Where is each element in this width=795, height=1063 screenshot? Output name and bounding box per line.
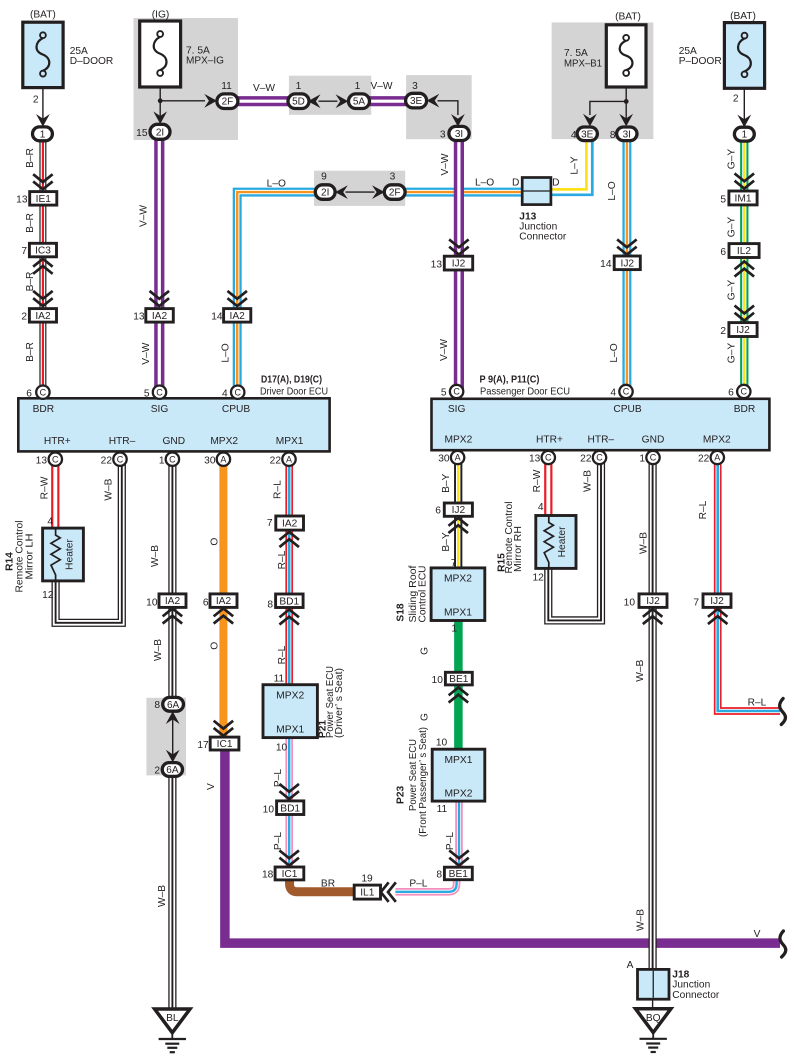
- svg-text:8: 8: [436, 870, 442, 881]
- svg-text:B–R: B–R: [25, 342, 36, 362]
- chevron arrow above IJ2 pin14: [618, 240, 635, 254]
- svg-text:13: 13: [133, 312, 145, 323]
- svg-text:12: 12: [532, 572, 544, 583]
- svg-text:22: 22: [698, 454, 710, 465]
- svg-text:1: 1: [296, 81, 302, 92]
- svg-text:BQ: BQ: [646, 1013, 661, 1024]
- svg-text:Heater: Heater: [557, 526, 568, 557]
- svg-text:5D: 5D: [292, 97, 305, 108]
- connector box IA2 pin 14: [224, 309, 251, 323]
- svg-text:5: 5: [144, 388, 150, 399]
- svg-text:C: C: [169, 454, 176, 464]
- connector oval 2F pin 3: [384, 185, 405, 200]
- svg-text:6A: 6A: [167, 700, 180, 711]
- wire W-B heater LH loop to HTR-: [56, 459, 122, 623]
- svg-text:MPX1: MPX1: [444, 608, 472, 619]
- ECU P21 power seat box: [263, 685, 317, 738]
- svg-text:G–Y: G–Y: [726, 217, 737, 238]
- svg-text:V–W: V–W: [440, 153, 451, 175]
- chevron arrow above IC1 pin17: [215, 722, 232, 736]
- arrow into connector 2I pin 15: [153, 111, 167, 124]
- chevron arrow below IA2 pin10: [164, 609, 181, 623]
- svg-text:4: 4: [222, 388, 228, 399]
- chevron arrow below IJ2 pin10: [644, 609, 661, 623]
- wire B-R D-DOOR column: [39, 140, 46, 392]
- arrow into connector 3I pin 8: [619, 114, 633, 127]
- svg-text:2I: 2I: [156, 127, 164, 138]
- svg-text:14: 14: [211, 312, 223, 323]
- svg-text:1: 1: [639, 454, 645, 465]
- connector box IJ2 pin 7: [703, 594, 731, 608]
- svg-text:C: C: [40, 387, 47, 397]
- svg-text:D–DOOR: D–DOOR: [70, 56, 114, 67]
- svg-text:7: 7: [693, 598, 699, 609]
- svg-text:V: V: [754, 929, 761, 940]
- svg-text:C: C: [117, 454, 124, 464]
- wire L-O 2F to J13: [405, 188, 523, 197]
- svg-text:BDR: BDR: [734, 404, 756, 415]
- svg-text:6A: 6A: [166, 765, 179, 776]
- connector oval 3E pin 3: [406, 93, 427, 108]
- svg-text:L–O: L–O: [221, 343, 232, 362]
- svg-text:R–L: R–L: [698, 500, 709, 519]
- connector box BE1 pin 8: [444, 867, 472, 880]
- svg-text:MPX1: MPX1: [276, 436, 304, 447]
- svg-text:IJ2: IJ2: [452, 505, 466, 516]
- connector oval 6A pin 8: [163, 697, 184, 711]
- svg-text:13: 13: [16, 194, 28, 205]
- svg-text:IJ2: IJ2: [710, 596, 724, 607]
- svg-text:P–L: P–L: [409, 878, 427, 889]
- junction connector J13 box: [522, 178, 551, 205]
- wire W-B GND driver upper: [168, 459, 176, 704]
- svg-text:P23: P23: [396, 786, 407, 804]
- connector oval 3I pin 3: [449, 126, 469, 140]
- svg-text:B–Y: B–Y: [441, 473, 452, 492]
- connector oval 5D: [288, 94, 309, 109]
- svg-text:IC3: IC3: [35, 246, 51, 257]
- connector box IL1 pin 19: [354, 885, 380, 899]
- svg-text:IJ2: IJ2: [646, 596, 660, 607]
- svg-text:3: 3: [440, 129, 446, 140]
- svg-text:G: G: [420, 647, 431, 655]
- svg-text:MPX1: MPX1: [444, 755, 472, 766]
- wire V-W 5A to 3E: [370, 96, 407, 106]
- shaded region connector pair 5D-5A: [289, 76, 371, 115]
- chevron arrow below BE1 pin10: [450, 688, 467, 702]
- svg-text:10: 10: [432, 675, 444, 686]
- ECU P23 power seat box: [432, 749, 485, 801]
- fuse 25A P-DOOR: [724, 23, 764, 89]
- svg-text:G–Y: G–Y: [726, 343, 737, 364]
- svg-text:MPX2: MPX2: [210, 436, 238, 447]
- svg-text:BE1: BE1: [449, 869, 469, 880]
- wire R-L MPX1 driver to P21: [285, 459, 293, 685]
- svg-text:L–O: L–O: [607, 181, 618, 200]
- chevron arrow above IA2 pin14: [229, 292, 246, 306]
- wire L-O CPUB passenger: [622, 140, 631, 392]
- svg-text:6: 6: [435, 505, 441, 516]
- svg-text:10: 10: [146, 598, 158, 609]
- svg-text:C: C: [453, 387, 460, 397]
- svg-text:W–B: W–B: [636, 909, 647, 931]
- svg-text:(Driver’ s Seat): (Driver’ s Seat): [334, 668, 345, 738]
- wire W-B heater RH loop to HTR-: [548, 458, 601, 621]
- chevron arrow above IA2 pin13: [151, 292, 168, 306]
- chevron arrow above IM1: [736, 174, 753, 188]
- wire V multiplex bus: [225, 750, 780, 944]
- svg-text:IA2: IA2: [216, 596, 232, 607]
- wire BR IC1 to IL1: [290, 880, 355, 892]
- wire R-W HTR+ driver to heater: [51, 459, 59, 528]
- svg-text:A: A: [220, 454, 226, 464]
- wire V-W SIG driver: [154, 140, 164, 393]
- svg-text:IC1: IC1: [282, 869, 298, 880]
- connector box IE1: [30, 192, 57, 206]
- svg-text:P–L: P–L: [273, 832, 284, 850]
- svg-text:3: 3: [390, 171, 396, 182]
- svg-text:B–Y: B–Y: [441, 532, 452, 551]
- svg-text:(BAT): (BAT): [615, 12, 641, 23]
- svg-text:8: 8: [154, 700, 160, 711]
- wire P-L IL1 to BE1: [395, 880, 456, 892]
- svg-text:W–B: W–B: [157, 885, 168, 907]
- connector box IM1: [729, 191, 757, 205]
- connector box IA2 LH: [29, 309, 56, 323]
- svg-text:4: 4: [47, 517, 53, 528]
- svg-text:V–W: V–W: [139, 205, 150, 227]
- svg-text:14: 14: [600, 259, 612, 270]
- svg-text:Control ECU: Control ECU: [418, 566, 429, 623]
- svg-text:GND: GND: [162, 436, 185, 447]
- pin 4 CPUB passenger: [619, 385, 632, 398]
- svg-text:C: C: [623, 387, 630, 397]
- svg-text:D: D: [512, 178, 519, 189]
- connector box IJ2 pin 13: [444, 256, 472, 270]
- svg-text:C: C: [596, 453, 603, 463]
- pin 30 MPX2 passenger: [451, 451, 464, 464]
- svg-text:P–L: P–L: [445, 832, 456, 850]
- svg-text:SIG: SIG: [448, 404, 466, 415]
- svg-text:V–W: V–W: [370, 81, 392, 92]
- svg-text:(BAT): (BAT): [730, 11, 756, 22]
- svg-text:7: 7: [267, 518, 273, 529]
- svg-text:IA2: IA2: [230, 311, 246, 322]
- wire V-W SIG passenger: [454, 140, 464, 392]
- svg-text:R–L: R–L: [273, 480, 284, 499]
- pin 22 HTR- driver: [113, 453, 126, 466]
- svg-text:MPX2: MPX2: [276, 691, 304, 702]
- svg-text:1: 1: [40, 129, 46, 140]
- svg-text:(BAT): (BAT): [30, 9, 56, 20]
- junction node under fuse MPX-IG: [158, 98, 163, 103]
- pin 5 SIG passenger: [450, 385, 463, 398]
- chevron arrow below BD1 pin8: [281, 610, 298, 624]
- connector box IJ2 pin 2: [729, 323, 757, 337]
- svg-text:MPX–B1: MPX–B1: [564, 59, 602, 70]
- svg-text:R–W: R–W: [532, 469, 543, 492]
- svg-text:(Front Passenger’ s Seat): (Front Passenger’ s Seat): [418, 727, 429, 837]
- connector oval 2F pin 11: [217, 94, 238, 109]
- svg-text:11: 11: [274, 674, 285, 685]
- fuse 25A D-DOOR: [23, 22, 63, 87]
- connector box IJ2 pin 6: [444, 503, 472, 516]
- pin 22 HTR- passenger: [593, 451, 606, 464]
- svg-text:10: 10: [624, 598, 636, 609]
- svg-text:13: 13: [431, 260, 443, 271]
- svg-text:2: 2: [733, 94, 739, 105]
- svg-text:BE1: BE1: [449, 674, 469, 685]
- connector oval 1 LH: [33, 127, 53, 141]
- arrow into connector 5D: [308, 94, 321, 108]
- svg-text:1: 1: [355, 81, 361, 92]
- svg-text:6: 6: [720, 247, 726, 258]
- svg-text:13: 13: [36, 455, 48, 466]
- shaded region connector pair 6A-6A: [146, 698, 186, 776]
- svg-text:6: 6: [203, 598, 209, 609]
- connector box IC1 pin 17: [210, 737, 239, 750]
- svg-text:MPX–IG: MPX–IG: [186, 56, 224, 67]
- svg-text:BD1: BD1: [280, 803, 300, 814]
- svg-text:6: 6: [26, 388, 32, 399]
- svg-text:9: 9: [321, 171, 327, 182]
- svg-text:10: 10: [436, 738, 448, 749]
- wire L-Y J13 to connector 3E: [551, 140, 593, 195]
- svg-text:MPX2: MPX2: [444, 574, 472, 585]
- ECU passenger door P9/P11 box: [432, 399, 770, 450]
- chevron arrow below IJ2 pin6: [450, 518, 467, 532]
- svg-text:S18: S18: [396, 603, 407, 621]
- svg-text:HTR–: HTR–: [587, 434, 614, 445]
- svg-text:R–L: R–L: [277, 645, 288, 664]
- svg-text:IA2: IA2: [152, 311, 168, 322]
- wire fuse MPX-IG down: [159, 87, 161, 124]
- svg-text:2: 2: [720, 326, 726, 337]
- chevron arrow below IA2 pin6: [215, 609, 232, 623]
- arrow into connector 3E pin 4: [583, 114, 597, 127]
- svg-text:BL: BL: [166, 1013, 179, 1024]
- svg-text:Mirror RH: Mirror RH: [513, 526, 524, 572]
- junction connector J18 box: [638, 969, 670, 999]
- svg-text:11: 11: [437, 804, 448, 815]
- heater R14 remote control mirror LH: [43, 528, 84, 581]
- svg-text:3I: 3I: [623, 129, 631, 140]
- svg-text:B–R: B–R: [25, 213, 36, 233]
- svg-text:5A: 5A: [353, 97, 366, 108]
- svg-text:A: A: [286, 454, 292, 464]
- wire O MPX2 driver to IC1: [219, 459, 227, 737]
- svg-text:4: 4: [610, 388, 616, 399]
- svg-text:BDR: BDR: [33, 404, 55, 415]
- svg-text:7: 7: [451, 558, 457, 569]
- svg-text:B–R: B–R: [25, 272, 36, 292]
- svg-text:1: 1: [159, 455, 165, 466]
- svg-text:BD1: BD1: [279, 596, 299, 607]
- chevron arrow above IJ2 pin2: [736, 306, 753, 320]
- shaded relay-block region MPX-B1: [552, 22, 654, 139]
- connector oval 3I pin 8: [617, 127, 637, 141]
- svg-text:30: 30: [438, 454, 450, 465]
- svg-text:1: 1: [742, 130, 748, 141]
- svg-text:4: 4: [538, 502, 544, 513]
- chevron arrow above BD1 pin10: [281, 785, 298, 799]
- ground BL: [155, 1009, 190, 1052]
- svg-text:17: 17: [197, 740, 209, 751]
- svg-text:13: 13: [529, 454, 541, 465]
- chevron arrow above IE1: [34, 175, 51, 189]
- break symbol V wire: [780, 931, 786, 957]
- connector box BD1 pin 8: [276, 594, 304, 608]
- svg-text:C: C: [156, 387, 163, 397]
- svg-text:C: C: [741, 387, 748, 397]
- svg-text:6: 6: [728, 388, 734, 399]
- break symbol R-L wire: [780, 699, 786, 725]
- svg-text:V–W: V–W: [141, 342, 152, 364]
- svg-text:W–B: W–B: [639, 532, 650, 554]
- svg-text:2F: 2F: [389, 188, 401, 199]
- svg-text:Heater: Heater: [64, 538, 75, 569]
- svg-text:MPX2: MPX2: [445, 434, 473, 445]
- svg-text:P–DOOR: P–DOOR: [679, 56, 722, 67]
- fuse 7.5A MPX-IG: [140, 21, 181, 87]
- svg-text:L–O: L–O: [475, 178, 494, 189]
- svg-text:W–B: W–B: [153, 639, 164, 661]
- svg-text:W–B: W–B: [582, 470, 593, 492]
- svg-text:7. 5A: 7. 5A: [564, 48, 588, 59]
- svg-text:IM1: IM1: [735, 194, 752, 205]
- svg-text:22: 22: [580, 454, 592, 465]
- shaded relay-block region MPX-IG: [134, 18, 239, 140]
- svg-text:C: C: [545, 453, 552, 463]
- svg-text:CPUB: CPUB: [613, 404, 642, 415]
- connector box IA2 pin 13: [146, 309, 174, 323]
- chevron arrow above IJ2 pin13: [450, 240, 467, 254]
- svg-text:MPX1: MPX1: [276, 725, 304, 736]
- wire R-L MPX2 passenger: [718, 458, 780, 712]
- wire link 3E to 3I: [438, 101, 458, 115]
- svg-text:HTR–: HTR–: [109, 436, 136, 447]
- connector box IL2: [729, 244, 759, 258]
- pin 5 SIG driver: [153, 386, 166, 399]
- svg-text:O: O: [210, 538, 221, 546]
- svg-text:A: A: [714, 453, 720, 463]
- svg-text:11: 11: [221, 81, 232, 92]
- wire G-Y P-DOOR column: [740, 141, 748, 392]
- wire B-Y MPX2 passenger to S18: [454, 458, 462, 569]
- svg-text:8: 8: [610, 130, 616, 141]
- svg-text:10: 10: [263, 804, 275, 815]
- svg-text:IA2: IA2: [165, 596, 181, 607]
- svg-text:18: 18: [262, 870, 274, 881]
- svg-text:12: 12: [42, 590, 54, 601]
- ECU S18 sliding roof box: [431, 568, 485, 621]
- svg-text:GND: GND: [642, 434, 665, 445]
- svg-text:2F: 2F: [222, 97, 234, 108]
- chevron arrow below IL2: [736, 262, 753, 276]
- connector box BE1 pin 10: [445, 672, 472, 685]
- svg-text:3E: 3E: [581, 129, 594, 140]
- svg-text:A: A: [455, 453, 461, 463]
- svg-text:P–L: P–L: [273, 769, 284, 787]
- svg-text:R–W: R–W: [40, 476, 51, 499]
- svg-text:IE1: IE1: [36, 194, 52, 205]
- wire fuse D-DOOR to connector 1: [42, 88, 44, 127]
- connector oval 2I pin 15: [150, 124, 170, 139]
- connector box IJ2 pin 14: [614, 256, 640, 270]
- svg-text:Passenger Door ECU: Passenger Door ECU: [480, 387, 570, 398]
- chevron arrow below IJ2 pin7: [709, 609, 726, 623]
- chevron arrow into IL1: [381, 883, 395, 900]
- svg-text:C: C: [234, 387, 241, 397]
- wire W-B GND driver lower: [168, 770, 176, 1011]
- chevron arrow below IA2 pin7: [281, 532, 298, 546]
- wire G S18 to P23: [454, 620, 463, 749]
- svg-text:G: G: [420, 713, 431, 721]
- arrow into connector 3E pin 3: [427, 94, 440, 108]
- svg-text:3: 3: [412, 81, 418, 92]
- fuse 7.5A MPX-B1: [606, 25, 646, 87]
- svg-text:MPX2: MPX2: [444, 789, 472, 800]
- svg-text:IA2: IA2: [35, 311, 51, 322]
- svg-text:19: 19: [361, 873, 373, 884]
- connector box IA2 pin 7: [276, 516, 304, 530]
- svg-text:MPX2: MPX2: [703, 434, 731, 445]
- wire fuse MPX-B1 branch to 3E: [590, 101, 626, 115]
- chevron arrow below IC3: [34, 259, 51, 273]
- connector oval 5A: [349, 94, 370, 109]
- svg-text:G–Y: G–Y: [726, 280, 737, 301]
- svg-text:Connector: Connector: [519, 232, 567, 243]
- svg-text:Driver Door ECU: Driver Door ECU: [260, 387, 328, 398]
- heater R15 remote control mirror RH: [536, 516, 576, 569]
- svg-text:5: 5: [720, 194, 726, 205]
- chevron arrow above BE1 pin8: [450, 851, 467, 865]
- svg-text:1: 1: [451, 624, 457, 635]
- svg-text:HTR+: HTR+: [536, 434, 563, 445]
- svg-text:IA2: IA2: [282, 519, 298, 530]
- connector box IA2 pin 6: [210, 594, 237, 608]
- svg-text:D17(A), D19(C): D17(A), D19(C): [261, 375, 322, 386]
- svg-text:R–L: R–L: [277, 550, 288, 569]
- arrow into connector 2F: [204, 94, 217, 108]
- connector box IA2 pin 10: [159, 594, 186, 608]
- svg-text:3I: 3I: [455, 129, 463, 140]
- wire fuse MPX-B1 down: [625, 87, 627, 125]
- svg-text:5: 5: [441, 388, 447, 399]
- chevron arrow above IC1 pin18: [281, 851, 298, 865]
- svg-text:CPUB: CPUB: [222, 404, 251, 415]
- arrow into connector 6A pin 8: [166, 711, 180, 724]
- svg-text:IC1: IC1: [217, 739, 233, 750]
- svg-text:10: 10: [276, 743, 288, 754]
- svg-text:C: C: [650, 453, 657, 463]
- arrow into connector 2F pin 3: [372, 185, 385, 199]
- wire L-O CPUB driver: [237, 192, 315, 392]
- svg-text:2: 2: [33, 94, 39, 105]
- wire fuse P-DOOR to connector 1: [743, 88, 745, 127]
- svg-text:Connector: Connector: [672, 990, 720, 1001]
- connector oval 1 RH: [734, 127, 754, 141]
- svg-text:Mirror LH: Mirror LH: [25, 534, 36, 580]
- pin 4 CPUB driver: [231, 386, 244, 399]
- connector box BD1 pin 10: [277, 801, 304, 815]
- ground BQ: [636, 1009, 671, 1052]
- pin 13 HTR+ driver: [49, 453, 62, 466]
- svg-text:22: 22: [101, 455, 113, 466]
- svg-text:W–B: W–B: [103, 478, 114, 500]
- svg-text:B–R: B–R: [25, 148, 36, 168]
- connector oval 3E pin 4: [577, 127, 597, 141]
